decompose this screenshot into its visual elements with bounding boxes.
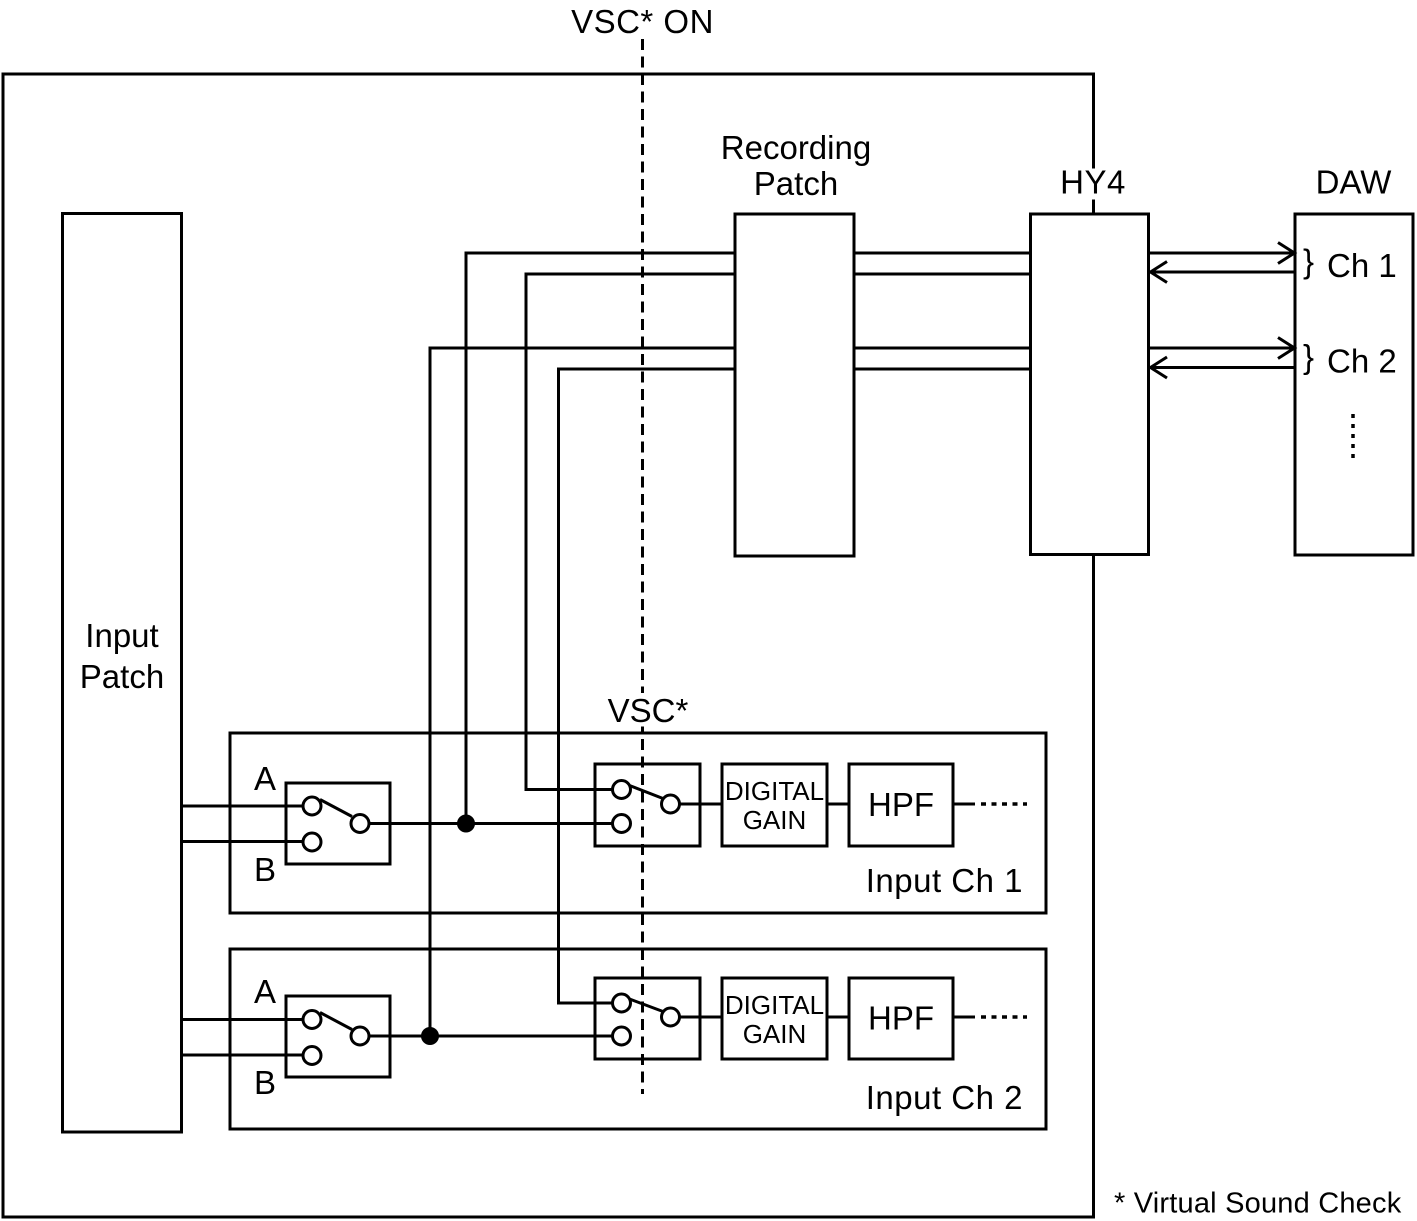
dashed line VSC ON boundary (lower segment) xyxy=(641,727,644,1095)
svg-text:GAIN: GAIN xyxy=(743,1019,807,1049)
svg-text:}: } xyxy=(1303,242,1314,279)
wire ch1 record send (corner x466,y253 to HY4) xyxy=(466,253,1032,824)
svg-text:Patch: Patch xyxy=(80,658,164,695)
svg-text:HY4: HY4 xyxy=(1060,164,1126,201)
box DIGITAL GAIN ch1 xyxy=(722,764,827,846)
svg-text:DAW: DAW xyxy=(1316,164,1393,201)
svg-text:A: A xyxy=(254,760,276,797)
VSC pole ch1 xyxy=(662,795,680,813)
svg-text:HPF: HPF xyxy=(868,786,934,823)
switch contact B ch2 xyxy=(303,1047,321,1065)
svg-text:B: B xyxy=(254,851,276,888)
switch lever ch2 xyxy=(320,1013,352,1030)
box Input Patch xyxy=(63,214,182,1133)
wire input A ch1 xyxy=(182,805,303,808)
box A/B switch ch1 xyxy=(286,783,390,864)
wire DIGITAL GAIN to HPF ch1 xyxy=(827,803,849,806)
box Input Ch 1 xyxy=(230,733,1046,913)
VSC contact B ch1 xyxy=(613,815,631,833)
svg-text:* Virtual Sound Check: * Virtual Sound Check xyxy=(1114,1188,1402,1220)
label HY4 (with white gap on border line) xyxy=(1056,164,1131,201)
box DAW xyxy=(1295,214,1413,555)
switch pole ch2 xyxy=(351,1027,369,1045)
svg-text:B: B xyxy=(254,1064,276,1101)
label DIGITAL GAIN ch2 xyxy=(725,990,824,1049)
switch contact A ch2 xyxy=(303,1011,321,1029)
dotted continuation ch1 xyxy=(981,802,1027,806)
svg-text:Patch: Patch xyxy=(754,165,838,202)
switch contact B ch1 xyxy=(303,833,321,851)
wire HY4 to DAW ch2 forward xyxy=(1149,338,1295,359)
box DIGITAL GAIN ch2 xyxy=(722,978,827,1059)
label VSC* xyxy=(600,692,696,729)
VSC contact A ch2 xyxy=(613,994,631,1012)
wire ch2 record send (corner x430,y348 to HY4) xyxy=(430,348,1032,1036)
VSC lever ch1 xyxy=(630,786,664,799)
switch pole ch1 xyxy=(351,815,369,833)
svg-text:Input Ch 2: Input Ch 2 xyxy=(866,1079,1023,1116)
wire DAW to HY4 ch1 return xyxy=(1151,262,1296,283)
svg-text:DIGITAL: DIGITAL xyxy=(725,776,824,806)
svg-text:VSC*: VSC* xyxy=(608,692,689,729)
dotted continuation ch2 xyxy=(981,1015,1027,1019)
dashed line VSC ON boundary (upper segment) xyxy=(641,39,644,695)
svg-text:Input Ch 1: Input Ch 1 xyxy=(866,862,1023,899)
svg-text:Ch 1: Ch 1 xyxy=(1327,247,1397,284)
box VSC switch ch2 xyxy=(595,978,700,1059)
label DIGITAL GAIN ch1 xyxy=(725,776,824,835)
VSC pole ch2 xyxy=(662,1008,680,1026)
label } Ch 2 xyxy=(1303,338,1397,380)
wire ch2 VSC return (HY4 to VSC switch A input) xyxy=(559,369,1033,1003)
svg-text:Ch 2: Ch 2 xyxy=(1327,343,1397,380)
VSC lever ch2 xyxy=(630,999,664,1012)
svg-text:GAIN: GAIN xyxy=(743,805,807,835)
wire HY4 to DAW ch1 forward xyxy=(1149,243,1295,264)
wire ch1 VSC return (HY4 to VSC switch A input) xyxy=(526,274,1032,790)
VSC contact B ch2 xyxy=(613,1027,631,1045)
switch lever ch1 xyxy=(320,800,352,817)
wire VSC switch to DIGITAL GAIN ch1 xyxy=(680,803,723,806)
outer frame xyxy=(3,74,1094,1217)
svg-text:A: A xyxy=(254,973,276,1010)
wire HPF output ch2 xyxy=(953,1016,975,1019)
svg-text:DIGITAL: DIGITAL xyxy=(725,990,824,1020)
svg-text:Recording: Recording xyxy=(721,129,871,166)
wire input B ch2 xyxy=(182,1054,303,1057)
box VSC switch ch1 xyxy=(595,764,700,846)
VSC contact A ch1 xyxy=(613,781,631,799)
wire input A ch2 xyxy=(182,1018,303,1021)
wire A/B switch output to VSC switch ch2 xyxy=(369,1035,613,1038)
svg-text:}: } xyxy=(1303,338,1314,375)
wire DIGITAL GAIN to HPF ch2 xyxy=(827,1016,849,1019)
svg-text:Input: Input xyxy=(85,617,158,654)
box HPF ch2 xyxy=(849,978,953,1059)
label } Ch 1 xyxy=(1303,242,1397,284)
box A/B switch ch2 xyxy=(286,996,390,1077)
wire HPF output ch1 xyxy=(953,803,975,806)
box HY4 xyxy=(1031,214,1149,555)
box HPF ch1 xyxy=(849,764,953,846)
wire VSC switch to DIGITAL GAIN ch2 xyxy=(680,1016,723,1019)
svg-text:HPF: HPF xyxy=(868,1000,934,1037)
svg-text:VSC* ON: VSC* ON xyxy=(571,3,714,40)
wire A/B switch output to VSC switch ch1 xyxy=(369,822,613,825)
wire input B ch1 xyxy=(182,840,303,843)
switch contact A ch1 xyxy=(303,797,321,815)
box Input Ch 2 xyxy=(230,949,1046,1129)
junction node ch1 xyxy=(457,815,475,833)
junction node ch2 xyxy=(421,1027,439,1045)
DAW vertical ellipsis dots xyxy=(1351,414,1355,458)
box Recording Patch xyxy=(735,214,854,556)
wire DAW to HY4 ch2 return xyxy=(1151,357,1296,378)
